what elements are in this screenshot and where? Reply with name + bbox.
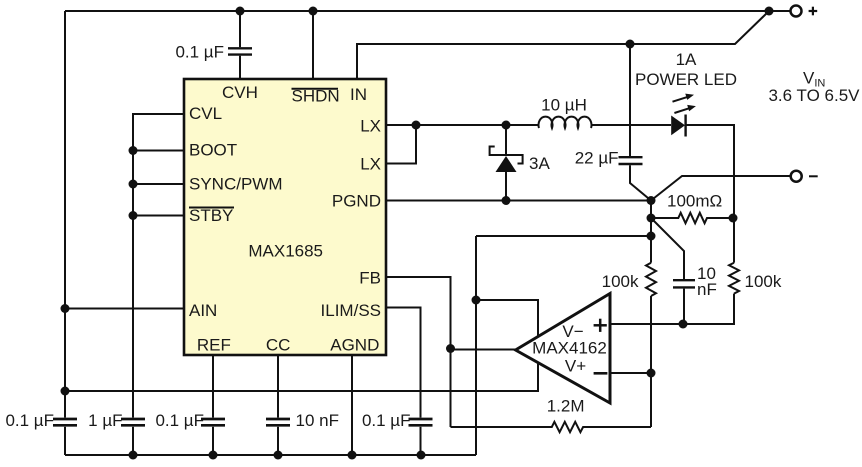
wire IN riser and input rail (357, 11, 769, 80)
node gnd REF (209, 451, 218, 460)
wire FB (385, 277, 451, 427)
node gnd ILIM (417, 451, 426, 460)
wire 22uF to PGND node (630, 165, 651, 200)
node top SHDN (309, 7, 318, 16)
node PGND out (647, 196, 656, 205)
node AIN (61, 304, 70, 313)
svg-text:BOOT: BOOT (189, 141, 237, 160)
LED D2 power LED (671, 94, 696, 137)
node minus input (647, 369, 656, 378)
wire minus terminal (651, 176, 790, 201)
wire ground drop x476 (475, 236, 477, 455)
wire op-amp output (451, 349, 517, 351)
wire analog ground return (65, 300, 538, 391)
node AIN cap (61, 387, 70, 396)
wire 10nF branch (651, 218, 684, 279)
node BOOT (129, 146, 138, 155)
svg-text:100mΩ: 100mΩ (667, 192, 722, 211)
wire LED cathode to right drop (686, 125, 734, 218)
node 100m right (729, 214, 738, 223)
node gnd 1uF (129, 451, 138, 460)
node top CVH (236, 7, 245, 16)
wire SHDN riser (312, 11, 314, 80)
svg-text:AGND: AGND (330, 336, 379, 355)
resistor R 100k left (646, 263, 656, 296)
capacitor C 10nF (CC) (266, 419, 290, 425)
wire minus input (610, 372, 651, 374)
node sense top (647, 214, 656, 223)
inductor L1 10uH (506, 117, 671, 128)
resistor R 1.2M (451, 422, 652, 432)
node plus input (679, 320, 688, 329)
capacitor C 1uF (121, 419, 145, 425)
capacitor C 10nF (673, 280, 695, 287)
svg-text:nF: nF (697, 280, 717, 299)
svg-text:CVH: CVH (222, 83, 258, 102)
svg-text:ILIM/SS: ILIM/SS (321, 301, 381, 320)
svg-text:CVL: CVL (189, 104, 222, 123)
node gnd AGND (348, 451, 357, 460)
op-amp U2 MAX4162 body (516, 294, 611, 404)
wire SYNC/PWM stub (133, 183, 186, 185)
node SYNC (129, 180, 138, 189)
svg-text:0.1 µF: 0.1 µF (362, 411, 411, 430)
svg-text:SYNC/PWM: SYNC/PWM (189, 175, 283, 194)
svg-text:1 µF: 1 µF (88, 411, 122, 430)
wire LX1 (385, 124, 506, 126)
wire right 100k drop (733, 218, 735, 263)
resistor R sense 100mohm (651, 213, 733, 223)
svg-text:0.1 µF: 0.1 µF (155, 411, 204, 430)
svg-text:100k: 100k (745, 272, 782, 291)
svg-text:LX: LX (360, 117, 381, 136)
terminal plus (791, 6, 802, 17)
svg-text:3A: 3A (529, 154, 550, 173)
label minus terminal (809, 175, 818, 177)
svg-text:0.1 µF: 0.1 µF (175, 43, 224, 62)
svg-text:V+: V+ (565, 357, 586, 376)
resistor R 100k right (729, 263, 739, 294)
diode D1 leads (505, 125, 507, 154)
wire bottom ground rail (65, 454, 476, 456)
pin STBY overline (189, 207, 234, 209)
svg-text:10 µH: 10 µH (541, 96, 587, 115)
wire 10nF bottom (683, 289, 685, 324)
wire PGND (385, 200, 651, 202)
node rail2 22uF (626, 40, 635, 49)
node FB (446, 344, 455, 353)
capacitor 0.1uF top (228, 48, 252, 54)
svg-text:POWER LED: POWER LED (635, 70, 737, 89)
wire LX2 (385, 125, 416, 164)
node gnd CC (274, 451, 283, 460)
node STBY (129, 211, 138, 220)
wire 22uF riser (629, 44, 631, 156)
wire STBY stub (133, 215, 186, 217)
svg-text:1.2M: 1.2M (547, 397, 585, 416)
wire plus terminal (769, 10, 790, 12)
node sense bottom (647, 232, 656, 241)
node top plus (765, 7, 774, 16)
wire top rail (65, 10, 769, 12)
svg-text:STBY: STBY (189, 206, 233, 225)
svg-text:3.6 TO 6.5V: 3.6 TO 6.5V (768, 86, 860, 105)
node gnd loop (472, 296, 481, 305)
wire ILIM/SS (385, 308, 421, 418)
svg-text:100k: 100k (602, 272, 639, 291)
terminal minus (791, 171, 802, 182)
wire CVL (133, 114, 186, 418)
svg-text:FB: FB (359, 269, 381, 288)
diode D1 3A schottky (490, 147, 523, 173)
wire plus input (610, 294, 734, 324)
node diode bottom (502, 196, 511, 205)
wire node to x476 (476, 235, 651, 237)
label op-amp minus input (594, 372, 608, 375)
wire left rail (64, 11, 66, 418)
svg-text:IN: IN (350, 85, 367, 104)
svg-text:MAX1685: MAX1685 (248, 242, 323, 261)
wire REF riser (212, 354, 214, 418)
svg-text:0.1 µF: 0.1 µF (5, 411, 54, 430)
capacitor C 0.1uF (REF) (201, 419, 225, 425)
label op-amp plus input (594, 319, 607, 332)
svg-text:AIN: AIN (189, 301, 217, 320)
svg-text:10 nF: 10 nF (296, 411, 339, 430)
node LX join (412, 121, 421, 130)
wire AGND riser (351, 354, 353, 455)
wire CVH riser (239, 11, 241, 47)
svg-text:LX: LX (360, 155, 381, 174)
capacitor C 22uF (619, 157, 643, 164)
svg-text:22 µF: 22 µF (575, 149, 619, 168)
pin SHDN overline (292, 88, 339, 90)
capacitor C 0.1uF (AIN) (53, 419, 77, 425)
svg-text:MAX4162: MAX4162 (532, 339, 607, 358)
svg-text:1A: 1A (676, 50, 697, 69)
label plus terminal (809, 7, 818, 16)
capacitor C 0.1uF (ILIM) (409, 419, 433, 425)
svg-text:PGND: PGND (332, 192, 381, 211)
wire CC riser (277, 354, 279, 418)
IC U1 MAX1685 body (184, 79, 386, 355)
node diode top (502, 121, 511, 130)
wire sense node chain x651 (650, 201, 652, 263)
wire AIN (65, 308, 186, 310)
svg-text:CC: CC (266, 336, 291, 355)
svg-text:REF: REF (197, 336, 231, 355)
wire BOOT stub (133, 150, 186, 152)
